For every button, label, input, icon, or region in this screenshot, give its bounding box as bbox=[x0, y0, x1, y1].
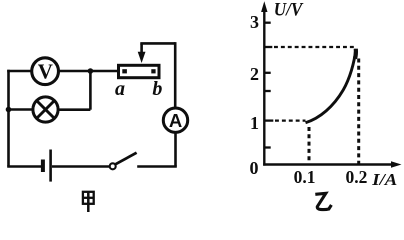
wire voltmeter right to rheostat terminal a bbox=[59, 70, 118, 73]
rheostat slider arrow bbox=[138, 43, 146, 63]
U-I characteristic curve bbox=[306, 49, 356, 123]
rheostat R1 body bbox=[119, 65, 160, 77]
svg-text:1: 1 bbox=[250, 113, 259, 133]
dashed line U=1 bbox=[275, 119, 306, 121]
wire junction drop to lamp row bbox=[89, 71, 92, 110]
wire top-left horizontal to voltmeter bbox=[7, 70, 31, 73]
wire battery to switch bbox=[52, 165, 110, 168]
wire ammeter bottom vertical bbox=[174, 132, 177, 166]
graph y-axis U/V bbox=[263, 9, 265, 166]
wire right vertical to ammeter bbox=[174, 42, 177, 107]
lamp L1 bbox=[33, 97, 58, 122]
svg-text:U/V: U/V bbox=[274, 1, 304, 21]
graph x-axis arrowhead bbox=[391, 161, 402, 167]
voltmeter U1 bbox=[32, 58, 59, 85]
wire left vertical (battery branch riser) bbox=[7, 70, 10, 167]
graph y-axis arrowhead bbox=[261, 1, 267, 12]
svg-text:0.2: 0.2 bbox=[345, 167, 367, 187]
dashed line I=0.1 bbox=[308, 127, 311, 164]
rheostat terminal square b bbox=[151, 69, 155, 73]
y tick U=2 bbox=[264, 72, 270, 74]
battery B1 long plate bbox=[49, 150, 52, 182]
y tick U=1.5 bbox=[264, 90, 270, 92]
graph x-axis I/A bbox=[263, 163, 394, 165]
wire bottom-left horizontal to battery bbox=[7, 165, 41, 168]
dashed line U=2.5 bbox=[274, 46, 357, 48]
battery B1 short plate bbox=[41, 160, 45, 173]
label jia (Chinese 甲) bbox=[83, 192, 94, 212]
y tick U=1 bbox=[264, 119, 273, 121]
svg-text:3: 3 bbox=[250, 12, 259, 32]
node junction dot (voltmeter/lamp right join) bbox=[88, 68, 94, 74]
wire lamp left horizontal bbox=[9, 108, 33, 111]
switch S1 bbox=[110, 153, 137, 170]
wire bottom-right horizontal to switch bbox=[137, 165, 177, 168]
svg-text:0: 0 bbox=[250, 158, 259, 178]
wire lamp right horizontal bbox=[59, 108, 91, 111]
svg-text:a: a bbox=[115, 78, 125, 100]
svg-text:V: V bbox=[38, 59, 53, 83]
label yi (Chinese 乙) bbox=[315, 193, 331, 209]
rheostat terminal square a bbox=[122, 69, 127, 73]
svg-text:2: 2 bbox=[250, 64, 259, 84]
svg-text:b: b bbox=[152, 78, 162, 100]
y tick U=3 bbox=[264, 22, 270, 24]
svg-text:A: A bbox=[169, 110, 182, 131]
y tick U=0.5 bbox=[264, 146, 270, 148]
ammeter A1 bbox=[163, 108, 187, 132]
curve end hook bbox=[353, 49, 358, 59]
node junction dot (left riser / lamp branch) bbox=[6, 107, 12, 113]
dashed line I=0.2 bbox=[357, 59, 360, 164]
svg-text:0.1: 0.1 bbox=[294, 167, 316, 187]
wire slider top horizontal bbox=[140, 42, 175, 45]
y tick U=2.5 bbox=[264, 46, 272, 48]
svg-text:I/A: I/A bbox=[371, 170, 397, 189]
